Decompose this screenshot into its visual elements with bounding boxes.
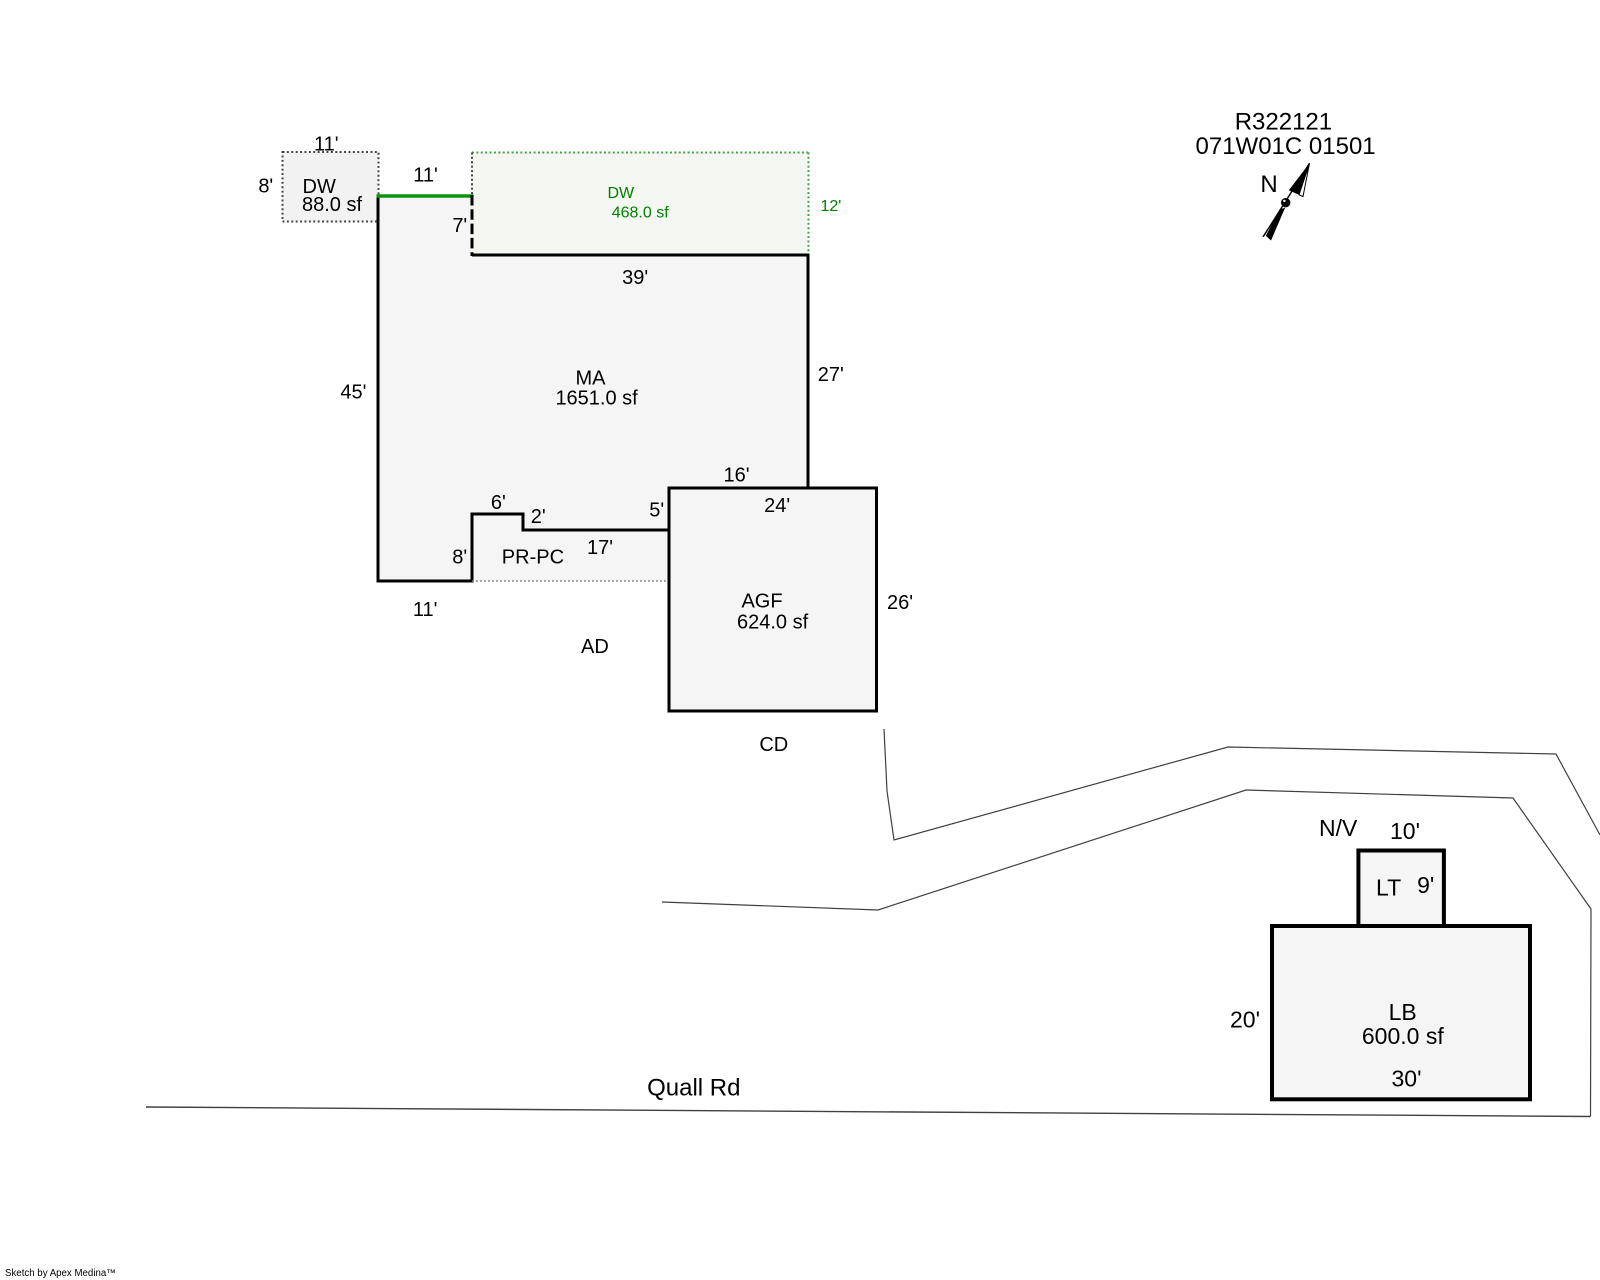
svg-text:R322121: R322121 bbox=[1235, 108, 1332, 135]
svg-text:27': 27' bbox=[818, 364, 844, 386]
area LB bbox=[1272, 926, 1530, 1099]
svg-text:9': 9' bbox=[1417, 872, 1434, 898]
svg-text:LB: LB bbox=[1389, 999, 1417, 1025]
svg-text:600.0 sf: 600.0 sf bbox=[1362, 1023, 1444, 1049]
area LT bbox=[1358, 851, 1444, 927]
area MA fill bbox=[378, 196, 808, 581]
svg-text:N: N bbox=[1260, 171, 1277, 198]
svg-text:20': 20' bbox=[1230, 1007, 1260, 1033]
svg-text:MA: MA bbox=[576, 367, 607, 389]
svg-text:Quall Rd: Quall Rd bbox=[647, 1075, 740, 1102]
wire PR-PC dotted bottom bbox=[472, 580, 669, 582]
svg-text:AD: AD bbox=[581, 636, 609, 658]
svg-text:26': 26' bbox=[887, 592, 913, 614]
svg-text:12': 12' bbox=[820, 198, 841, 215]
svg-text:17': 17' bbox=[587, 537, 613, 559]
wire lot boundary lower bbox=[662, 790, 1591, 1117]
svg-text:8': 8' bbox=[258, 176, 273, 198]
wire MA outline bbox=[378, 196, 808, 581]
svg-text:LT: LT bbox=[1376, 874, 1401, 900]
svg-text:N/V: N/V bbox=[1319, 815, 1358, 841]
svg-text:16': 16' bbox=[724, 465, 750, 487]
svg-text:11': 11' bbox=[413, 164, 438, 186]
svg-text:11': 11' bbox=[314, 134, 339, 156]
wire dashed 7' edge bbox=[471, 195, 474, 256]
svg-text:071W01C 01501: 071W01C 01501 bbox=[1196, 133, 1376, 160]
wire lot boundary upper bbox=[884, 729, 1600, 840]
area AGF bbox=[669, 488, 877, 711]
svg-text:DW: DW bbox=[607, 185, 635, 202]
area PR-PC fill bbox=[472, 514, 669, 581]
svg-text:10': 10' bbox=[1390, 818, 1420, 844]
svg-text:88.0 sf: 88.0 sf bbox=[302, 194, 362, 216]
svg-text:8': 8' bbox=[452, 546, 467, 568]
area DW 468 sf (green dotted deck) bbox=[472, 153, 809, 256]
svg-text:AGF: AGF bbox=[741, 591, 782, 613]
svg-text:6': 6' bbox=[491, 492, 506, 514]
area DW 88 sf (dotted stoop) bbox=[283, 152, 379, 222]
svg-text:CD: CD bbox=[759, 734, 788, 756]
svg-text:7': 7' bbox=[452, 215, 467, 237]
svg-text:1651.0 sf: 1651.0 sf bbox=[555, 388, 638, 410]
svg-text:PR-PC: PR-PC bbox=[502, 546, 564, 568]
svg-text:2': 2' bbox=[531, 506, 546, 528]
svg-text:45': 45' bbox=[340, 382, 366, 404]
wire green 11' edge bbox=[377, 194, 474, 197]
svg-text:39': 39' bbox=[622, 267, 648, 289]
compass needle bbox=[1263, 163, 1310, 240]
svg-text:5': 5' bbox=[649, 500, 664, 522]
svg-text:11': 11' bbox=[413, 599, 438, 621]
svg-text:468.0 sf: 468.0 sf bbox=[612, 204, 669, 221]
svg-text:24': 24' bbox=[764, 495, 790, 517]
svg-text:624.0 sf: 624.0 sf bbox=[737, 611, 809, 633]
svg-text:30': 30' bbox=[1392, 1066, 1422, 1092]
wire Quall Rd line bbox=[146, 1107, 1591, 1117]
svg-text:Sketch by Apex Medina™: Sketch by Apex Medina™ bbox=[5, 1268, 116, 1279]
